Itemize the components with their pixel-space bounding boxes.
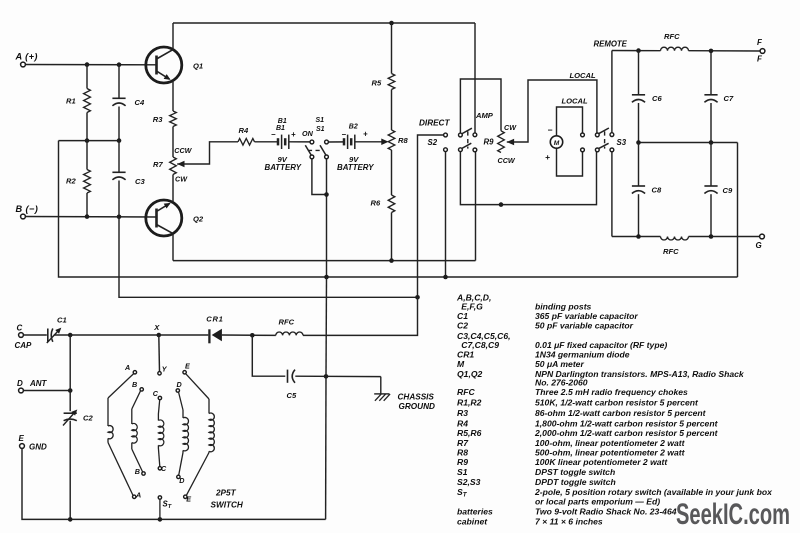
resistor R1 <box>66 65 90 141</box>
rotary contact Y <box>158 365 168 375</box>
chassis ground <box>374 377 435 411</box>
node top rail R5 <box>389 21 394 26</box>
node A-C4 junction <box>117 62 122 67</box>
wire D row <box>23 390 70 392</box>
svg-text:+: + <box>545 152 550 162</box>
svg-text:M: M <box>457 359 465 369</box>
wire C2 down to bottom bus <box>69 421 71 520</box>
rotary contact D top <box>176 380 182 392</box>
wire bottom filter rail <box>612 236 760 238</box>
svg-text:B2: B2 <box>349 123 358 130</box>
svg-text:AMP: AMP <box>475 111 494 120</box>
svg-text:510K, 1/2-watt carbon resistor: 510K, 1/2-watt carbon resistor 5 percent <box>535 398 699 408</box>
battery B2 <box>337 123 374 172</box>
svg-text:CCW: CCW <box>498 156 516 165</box>
switch S1 pole 1 <box>305 140 314 159</box>
node mid-C7 <box>709 140 714 145</box>
svg-text:S1: S1 <box>457 467 468 477</box>
svg-text:S2,S3: S2,S3 <box>457 477 481 487</box>
svg-text:GROUND: GROUND <box>399 402 435 411</box>
variable capacitor C1 <box>47 315 67 343</box>
svg-text:1,800-ohm 1/2-watt carbon resi: 1,800-ohm 1/2-watt carbon resistor 5 per… <box>535 418 719 428</box>
svg-text:RFC: RFC <box>663 247 679 256</box>
wire B row <box>25 216 156 219</box>
svg-text:C: C <box>17 324 23 333</box>
svg-text:C1: C1 <box>57 315 67 324</box>
switch S2 input contacts <box>428 133 448 152</box>
rotary contact C top <box>153 389 162 400</box>
svg-text:C9: C9 <box>723 186 733 195</box>
svg-text:C6: C6 <box>652 94 662 103</box>
svg-text:Q2: Q2 <box>193 214 204 223</box>
rotary common ST <box>158 496 172 520</box>
terminal G binding post <box>756 234 765 250</box>
terminal D binding post <box>17 379 48 393</box>
svg-text:B1: B1 <box>276 125 285 132</box>
node C5-S1 line junction <box>324 374 329 379</box>
switch S3 link <box>605 131 627 148</box>
svg-text:B (−): B (−) <box>16 204 39 214</box>
wire X to Y <box>158 335 161 371</box>
rotary contact A top <box>124 363 137 374</box>
switch S3 pole lower <box>595 143 613 152</box>
svg-text:E: E <box>19 434 25 443</box>
svg-text:M: M <box>554 140 560 147</box>
meter M <box>545 125 563 162</box>
svg-text:DPST toggle switch: DPST toggle switch <box>535 467 615 477</box>
svg-text:No. 276-2060: No. 276-2060 <box>535 378 588 388</box>
svg-text:or local parts emporium — Ed): or local parts emporium — Ed) <box>535 497 660 507</box>
node bus1-S1 <box>324 275 329 280</box>
svg-text:R4: R4 <box>457 418 468 428</box>
node bus3 R6 <box>389 258 394 263</box>
capacitor C7 <box>704 51 734 143</box>
node mid-C6 <box>636 140 641 145</box>
resistor R5 <box>372 23 395 130</box>
inductor RFC detector <box>276 317 303 335</box>
wire B1 to S1 <box>289 141 310 143</box>
svg-text:D: D <box>177 380 182 389</box>
svg-text:C8: C8 <box>652 185 662 194</box>
svg-text:R3: R3 <box>457 408 468 418</box>
wire S2 lower-left to meter bus <box>460 152 596 205</box>
svg-text:100K linear potentiometer 2 wa: 100K linear potentiometer 2 watt <box>535 457 668 467</box>
svg-text:7 × 11 × 6 inches: 7 × 11 × 6 inches <box>535 517 603 527</box>
terminal F binding post <box>757 38 765 64</box>
rotary contact E top <box>183 361 190 374</box>
svg-text:DIRECT: DIRECT <box>419 118 450 127</box>
svg-text:LOCAL: LOCAL <box>570 71 597 80</box>
svg-text:BATTERY: BATTERY <box>337 163 374 172</box>
switch S2 link <box>467 131 469 148</box>
transistor Q2 <box>146 200 204 236</box>
wire E to bottom bus <box>22 448 326 519</box>
wire bus3 emitter rail <box>173 260 476 262</box>
svg-text:1N34 germanium diode: 1N34 germanium diode <box>535 349 630 359</box>
svg-text:R3: R3 <box>153 115 163 124</box>
svg-text:2-pole, 5 position rotary swit: 2-pole, 5 position rotary switch (availa… <box>534 487 773 497</box>
wire R7 wiper <box>177 142 238 167</box>
svg-text:86-ohm 1/2-watt carbon resisto: 86-ohm 1/2-watt carbon resistor 5 percen… <box>535 408 707 418</box>
wire top rail <box>173 22 475 24</box>
svg-text:+: + <box>291 130 296 139</box>
node X <box>153 323 161 337</box>
svg-text:R8: R8 <box>398 136 408 145</box>
coil 4 <box>179 392 189 475</box>
wire Q1 collector up <box>172 23 174 49</box>
svg-text:C: C <box>153 389 159 398</box>
node bus-ST <box>158 517 163 522</box>
wire remote rail <box>612 50 760 53</box>
svg-text:2,000-ohm 1/2-watt carbon resi: 2,000-ohm 1/2-watt carbon resistor 5 per… <box>534 428 719 438</box>
svg-text:A: A <box>124 363 130 372</box>
potentiometer R7 <box>153 146 193 184</box>
wire bus3 up to S2 amp lower right <box>475 152 477 261</box>
svg-text:C3: C3 <box>135 177 145 186</box>
wire S1 pole2 down <box>326 159 328 277</box>
capacitor C9 <box>704 143 733 237</box>
svg-text:CR1: CR1 <box>457 349 474 359</box>
wire R4 to B1 <box>255 141 279 143</box>
node B-R2 junction <box>85 214 90 219</box>
node S1 poles join <box>324 192 329 197</box>
resistor R6 <box>371 150 395 261</box>
switch S3 throw contacts <box>581 133 585 152</box>
svg-text:E: E <box>185 361 190 370</box>
potentiometer R8 <box>388 130 408 150</box>
switch S2 second pole lower <box>459 143 477 152</box>
potentiometer R9 <box>484 123 518 165</box>
svg-text:batteries: batteries <box>457 507 493 517</box>
svg-text:RFC: RFC <box>457 387 475 397</box>
coil 3 <box>158 400 163 467</box>
svg-text:Q1: Q1 <box>193 61 203 70</box>
wire X to CR1 <box>159 334 209 336</box>
wire B2 to R8 wiper <box>355 139 389 146</box>
node D-C2 junction <box>68 388 73 393</box>
wire S1 to B2 <box>329 141 345 143</box>
svg-text:−: − <box>271 130 276 139</box>
svg-text:X: X <box>153 323 160 332</box>
wire mid junction jog <box>59 140 120 142</box>
svg-text:C7: C7 <box>724 94 734 103</box>
node C4-C3 junction <box>117 138 122 143</box>
inductor RFC bottom <box>661 237 689 256</box>
wire C row left <box>23 334 46 336</box>
wire C1 down to C2 <box>69 335 71 411</box>
wire S3 lower down <box>611 152 613 237</box>
coil 2 <box>132 391 143 472</box>
wire Q2 collector down <box>172 234 174 261</box>
svg-text:−: − <box>342 130 347 139</box>
wire right edge drop <box>737 143 739 278</box>
svg-text:cabinet: cabinet <box>457 517 488 527</box>
node bus2 direct junction <box>415 295 420 300</box>
svg-text:−: − <box>548 125 553 135</box>
variable capacitor C2 <box>63 410 93 426</box>
svg-text:R5: R5 <box>372 78 382 87</box>
svg-text:+: + <box>363 130 368 139</box>
svg-text:B: B <box>132 380 137 389</box>
svg-text:R4: R4 <box>239 126 249 135</box>
svg-text:DPDT toggle switch: DPDT toggle switch <box>535 477 616 487</box>
coil 5 <box>186 374 215 496</box>
svg-text:S3: S3 <box>617 138 627 147</box>
wire amp jumper to R9 top <box>460 79 501 133</box>
node bus-C2 <box>68 517 73 522</box>
rotary contact A bottom <box>133 490 142 499</box>
node C1-C2 junction <box>68 333 73 338</box>
svg-text:R7: R7 <box>457 438 469 448</box>
switch S3 pole upper <box>595 128 613 137</box>
wire S3 upper to remote rail <box>594 39 628 132</box>
svg-text:C5: C5 <box>287 391 297 400</box>
capacitor C6 <box>632 51 663 143</box>
svg-text:C: C <box>161 464 167 473</box>
node bottom-C8 <box>636 234 641 239</box>
wire R9 wiper to S3 <box>507 71 597 145</box>
terminal B binding post <box>16 204 39 219</box>
wire S1 pole1 down <box>312 159 327 195</box>
rotary contact C bottom <box>158 464 167 473</box>
svg-text:A (+): A (+) <box>15 52 38 62</box>
wire C5 branch <box>252 335 285 376</box>
coil 1 <box>108 374 134 496</box>
svg-text:R7: R7 <box>153 160 163 169</box>
svg-text:Two 9-volt Radio Shack No. 23-: Two 9-volt Radio Shack No. 23-464 <box>535 507 677 517</box>
wire bus1 feedback <box>59 141 738 277</box>
svg-text:E: E <box>186 495 191 504</box>
capacitor C4 <box>112 65 145 141</box>
svg-text:C2: C2 <box>83 413 93 422</box>
svg-text:C1: C1 <box>457 311 468 321</box>
svg-text:A: A <box>135 490 141 499</box>
wire mid rail <box>639 142 738 144</box>
svg-text:BATTERY: BATTERY <box>265 163 302 172</box>
wire A row <box>25 64 156 66</box>
svg-text:CCW: CCW <box>174 146 192 155</box>
svg-text:365 pF variable capacitor: 365 pF variable capacitor <box>535 311 638 321</box>
transistor Q1 <box>146 47 203 83</box>
rotary contact D bottom <box>177 475 185 485</box>
switch S1 pole 2 <box>320 140 328 159</box>
svg-text:R2: R2 <box>66 177 76 186</box>
watermark SeekIC.com <box>676 498 790 531</box>
capacitor C3 <box>112 141 145 217</box>
battery B1 <box>265 118 302 172</box>
wire RFC to bus2 <box>303 297 418 335</box>
svg-text:ON: ON <box>302 129 314 138</box>
wire bus2 from B row <box>119 217 418 297</box>
resistor R2 <box>66 141 90 217</box>
parts list <box>456 292 773 526</box>
node bus1-S2 <box>443 275 448 280</box>
switch S2 second pole upper <box>459 128 477 137</box>
node R1-R2 junction <box>85 138 90 143</box>
svg-text:CR1: CR1 <box>206 314 223 323</box>
node B-C3 junction <box>117 215 122 220</box>
rotary contact B top <box>132 380 143 391</box>
label 2P5T switch <box>211 488 244 509</box>
svg-text:REMOTE: REMOTE <box>594 39 628 48</box>
node remote-C7 <box>709 49 714 54</box>
svg-text:SeekIC.com: SeekIC.com <box>676 498 790 531</box>
wire top rail drop to S2 amp contact <box>474 23 476 133</box>
svg-text:CW: CW <box>175 175 188 184</box>
wire C1 to X <box>54 334 159 336</box>
svg-text:50 μA meter: 50 μA meter <box>535 359 584 369</box>
svg-text:CW: CW <box>504 123 517 132</box>
wire S2 lower to bus1 <box>445 152 447 277</box>
rotary contact B bottom <box>135 467 145 476</box>
diode CR1 <box>206 314 223 343</box>
capacitor C5 <box>287 370 297 400</box>
node meter bus R9 <box>499 202 504 207</box>
svg-text:S1: S1 <box>316 126 325 133</box>
svg-text:S1: S1 <box>316 117 325 124</box>
node remote-C6 <box>636 48 641 53</box>
node A-R1 junction <box>85 62 90 67</box>
svg-text:B: B <box>135 467 140 476</box>
svg-text:R9: R9 <box>457 457 468 467</box>
svg-text:R9: R9 <box>484 138 495 147</box>
switch S1 link <box>302 117 325 151</box>
node CR1-C5 junction <box>250 333 255 338</box>
svg-text:R1,R2: R1,R2 <box>457 398 482 408</box>
node bottom-C9 <box>709 234 714 239</box>
terminal E binding post <box>19 434 48 452</box>
resistor R4 <box>238 126 255 145</box>
wire DIRECT stub <box>418 118 451 297</box>
svg-text:SWITCH: SWITCH <box>211 500 244 509</box>
svg-text:R5,R6: R5,R6 <box>457 428 482 438</box>
svg-text:C2: C2 <box>457 321 468 331</box>
svg-text:2P5T: 2P5T <box>215 488 237 497</box>
terminal A binding post <box>15 52 38 67</box>
svg-text:D: D <box>179 476 184 485</box>
svg-text:GND: GND <box>29 442 47 451</box>
svg-text:Q1,Q2: Q1,Q2 <box>457 369 483 379</box>
terminal C binding post <box>15 324 33 351</box>
wire S1 line lower <box>325 277 328 519</box>
capacitor C8 <box>632 143 662 237</box>
rotary contact E bottom <box>184 495 192 504</box>
meter M loop box <box>557 97 589 176</box>
wire CR1 to RFC <box>222 334 276 336</box>
wire R7 to Q2 top <box>172 175 174 203</box>
inductor RFC top <box>661 32 689 51</box>
svg-text:100-ohm, linear potentiometer: 100-ohm, linear potentiometer 2 watt <box>535 438 686 448</box>
svg-text:ANT: ANT <box>29 379 48 388</box>
svg-text:C4: C4 <box>135 98 145 107</box>
svg-text:RFC: RFC <box>279 317 295 326</box>
svg-text:G: G <box>756 241 762 250</box>
svg-text:R1: R1 <box>66 96 76 105</box>
svg-text:S2: S2 <box>428 138 438 147</box>
svg-text:D: D <box>17 379 23 388</box>
svg-text:CAP: CAP <box>15 341 33 350</box>
svg-text:R6: R6 <box>371 199 381 208</box>
wire C5 to ground line <box>295 375 381 377</box>
svg-text:Three 2.5 mH radio frequency c: Three 2.5 mH radio frequency chokes <box>535 387 688 397</box>
svg-text:50 pF variable capacitor: 50 pF variable capacitor <box>535 321 634 331</box>
resistor R3 <box>153 81 177 157</box>
svg-text:LOCAL: LOCAL <box>562 97 589 106</box>
svg-text:RFC: RFC <box>664 32 680 41</box>
svg-text:CHASSIS: CHASSIS <box>398 392 435 401</box>
